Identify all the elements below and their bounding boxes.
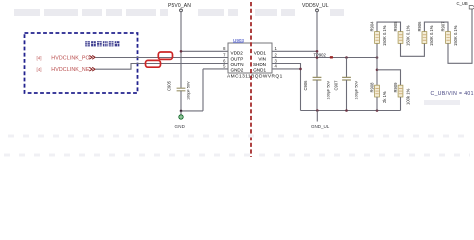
junction pin3/pin4	[299, 68, 302, 71]
svg-text:100pF 50V: 100pF 50V	[327, 80, 331, 99]
svg-text:U903: U903	[233, 38, 244, 43]
wire HVDCLINK_NE to OUTN (jog)	[96, 64, 229, 70]
wire VIN pin2	[272, 57, 377, 59]
isolation barrier (red dashed)	[250, 2, 252, 157]
svg-text:150K 0.1%: 150K 0.1%	[405, 25, 410, 46]
svg-text:2k 1%: 2k 1%	[382, 91, 387, 103]
svg-text:[4]: [4]	[37, 67, 42, 72]
svg-text:C906: C906	[303, 80, 308, 91]
wire ground rail	[301, 110, 401, 112]
svg-text:SHDN: SHDN	[253, 62, 266, 67]
svg-text:GND2: GND2	[231, 68, 244, 73]
svg-text:OUTN: OUTN	[231, 62, 244, 67]
svg-text:OUTP: OUTP	[231, 56, 244, 61]
junction VIN/C907	[345, 56, 348, 59]
svg-text:100k 1%: 100k 1%	[405, 88, 410, 105]
junction C905/GND	[180, 110, 183, 113]
capacitor C905	[177, 88, 186, 91]
resistor R909	[398, 85, 403, 97]
net label HVDCLINK_PO	[37, 55, 90, 61]
highlight oval 2	[146, 60, 161, 67]
wire C905 to gnd	[181, 69, 228, 111]
wire R908 bottom	[376, 97, 378, 111]
op-amp U903 box	[228, 43, 272, 73]
wire HVDCLINK_PO to OUTP	[96, 57, 229, 59]
wire C907 bottom	[346, 80, 348, 111]
svg-text:R906: R906	[417, 21, 422, 32]
junction VDD1	[316, 50, 319, 53]
svg-text:R908: R908	[370, 82, 375, 93]
ground GND_UL	[316, 111, 318, 122]
node C_UB connector	[469, 6, 474, 9]
junction VIN rail2	[376, 69, 379, 72]
svg-text:100pF 50V: 100pF 50V	[355, 80, 359, 99]
wire C906 bottom	[316, 80, 318, 111]
wire rail R908/R909 top	[377, 70, 401, 85]
svg-text:VDD5V_UL: VDD5V_UL	[302, 3, 329, 9]
wire R904 bottom to R908 top	[376, 43, 378, 85]
svg-text:VDD2: VDD2	[231, 50, 244, 55]
watermark ghost row	[14, 9, 460, 105]
node VIN junction column	[376, 56, 379, 59]
wire R905 bottom to R906 bottom	[401, 43, 425, 56]
junction P5V0/VDD2	[180, 50, 183, 53]
resistor R905	[398, 32, 403, 44]
svg-text:100pF 50V: 100pF 50V	[187, 81, 191, 100]
svg-text:R907: R907	[441, 21, 446, 32]
wire SHDN pin3	[272, 64, 301, 111]
svg-text:P5V0_AN: P5V0_AN	[168, 3, 191, 9]
svg-text:VDD1: VDD1	[254, 50, 267, 55]
capacitor C906	[313, 77, 322, 80]
box title (CJK)	[85, 41, 119, 46]
svg-text:150K 0.1%: 150K 0.1%	[429, 25, 434, 46]
wire VDD5V vertical to C906	[316, 12, 318, 78]
svg-text:150K 0.1%: 150K 0.1%	[453, 25, 458, 46]
wire R907 bottom to C_UB	[448, 9, 472, 63]
annotation box (blue dashed)	[25, 33, 138, 93]
svg-text:GND: GND	[175, 124, 186, 129]
net label HVDCLINK_NE	[37, 67, 90, 73]
svg-text:150K 0.1%: 150K 0.1%	[382, 25, 387, 46]
wire VDD2	[181, 50, 228, 52]
svg-text:HVDCLINK_PO: HVDCLINK_PO	[51, 55, 89, 61]
svg-text:C_UB/VIN = 401: C_UB/VIN = 401	[431, 91, 474, 97]
svg-text:R905: R905	[393, 21, 398, 32]
highlight oval 1	[158, 52, 172, 59]
svg-text:R904: R904	[370, 21, 375, 32]
svg-text:R909: R909	[393, 82, 398, 93]
svg-text:[4]: [4]	[37, 55, 42, 60]
wire R909 bottom	[400, 97, 402, 111]
junction VIN/C906	[316, 56, 319, 59]
svg-text:TP902: TP902	[314, 52, 327, 57]
faint artifacts	[4, 136, 470, 155]
ground GND (green flag)	[180, 111, 182, 115]
offpage connector NE	[89, 67, 95, 71]
junction rail/GND_UL	[316, 109, 319, 112]
svg-text:AMC1311BQDWVRQ1: AMC1311BQDWVRQ1	[227, 74, 283, 80]
resistor R904	[377, 22, 401, 32]
wire GND1 pin4	[272, 68, 301, 70]
resistor R907	[446, 32, 451, 44]
junction rail/C907	[345, 109, 348, 112]
capacitor C907	[342, 77, 351, 80]
svg-text:C907: C907	[334, 80, 339, 91]
wire C907 top lead	[346, 58, 348, 78]
wire VDD1 pin1	[272, 50, 317, 52]
svg-text:C_UB: C_UB	[457, 1, 468, 6]
resistor R906	[424, 22, 448, 32]
svg-text:VIN: VIN	[258, 56, 266, 61]
junction rail/R908	[376, 109, 379, 112]
resistor R908	[375, 85, 380, 97]
wire P5V0_AN vertical	[180, 12, 182, 88]
svg-text:GND_UL: GND_UL	[311, 124, 330, 129]
svg-text:C905: C905	[167, 80, 172, 91]
offpage connector PO	[89, 55, 95, 59]
svg-text:HVDCLINK_NE: HVDCLINK_NE	[51, 67, 90, 73]
svg-text:GND1: GND1	[253, 68, 266, 73]
